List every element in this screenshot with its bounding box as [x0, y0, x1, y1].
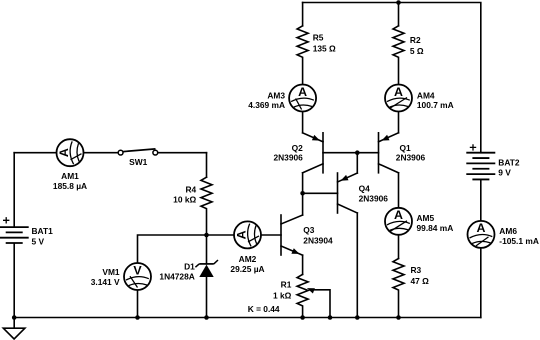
svg-text:R4: R4 [185, 184, 196, 194]
svg-text:5 V: 5 V [32, 236, 45, 246]
svg-text:VM1: VM1 [102, 267, 120, 277]
svg-text:BAT1: BAT1 [32, 226, 54, 236]
svg-text:A: A [57, 148, 71, 157]
svg-text:4.369 mA: 4.369 mA [248, 100, 285, 110]
svg-text:135 Ω: 135 Ω [313, 43, 336, 53]
svg-text:2N3904: 2N3904 [303, 235, 333, 245]
svg-text:Q4: Q4 [359, 183, 371, 193]
svg-text:A: A [234, 230, 248, 239]
svg-text:185.8 µA: 185.8 µA [53, 181, 87, 191]
svg-text:2N3906: 2N3906 [273, 153, 303, 163]
svg-text:2N3906: 2N3906 [359, 193, 389, 203]
svg-text:5 Ω: 5 Ω [410, 46, 424, 56]
svg-text:1 kΩ: 1 kΩ [273, 290, 292, 300]
svg-text:SW1: SW1 [129, 157, 147, 167]
svg-text:1N4728A: 1N4728A [159, 272, 194, 282]
svg-text:D1: D1 [184, 261, 195, 271]
svg-text:A: A [394, 208, 403, 222]
svg-text:10 kΩ: 10 kΩ [173, 195, 196, 205]
svg-text:Q1: Q1 [400, 143, 412, 153]
svg-text:AM2: AM2 [239, 254, 257, 264]
svg-text:AM6: AM6 [499, 226, 517, 236]
svg-text:9 V: 9 V [498, 168, 511, 178]
svg-text:K = 0.44: K = 0.44 [248, 304, 280, 314]
svg-text:A: A [298, 85, 307, 99]
svg-text:47 Ω: 47 Ω [411, 276, 430, 286]
svg-text:R3: R3 [411, 265, 422, 275]
svg-text:R5: R5 [313, 32, 324, 42]
svg-text:A: A [394, 85, 403, 99]
svg-text:3.141 V: 3.141 V [91, 277, 120, 287]
svg-text:100.7 mA: 100.7 mA [417, 100, 454, 110]
svg-text:AM5: AM5 [417, 213, 435, 223]
svg-text:BAT2: BAT2 [498, 158, 520, 168]
svg-text:Q3: Q3 [303, 225, 315, 235]
svg-text:R1: R1 [281, 280, 292, 290]
svg-text:A: A [477, 221, 486, 235]
svg-text:99.84 mA: 99.84 mA [417, 223, 454, 233]
svg-text:V: V [133, 263, 142, 277]
svg-text:R2: R2 [410, 35, 421, 45]
svg-text:Q2: Q2 [292, 143, 304, 153]
svg-text:AM1: AM1 [61, 171, 79, 181]
svg-text:-105.1 mA: -105.1 mA [499, 236, 539, 246]
svg-text:2N3906: 2N3906 [396, 153, 426, 163]
svg-text:29.25 µA: 29.25 µA [230, 264, 264, 274]
